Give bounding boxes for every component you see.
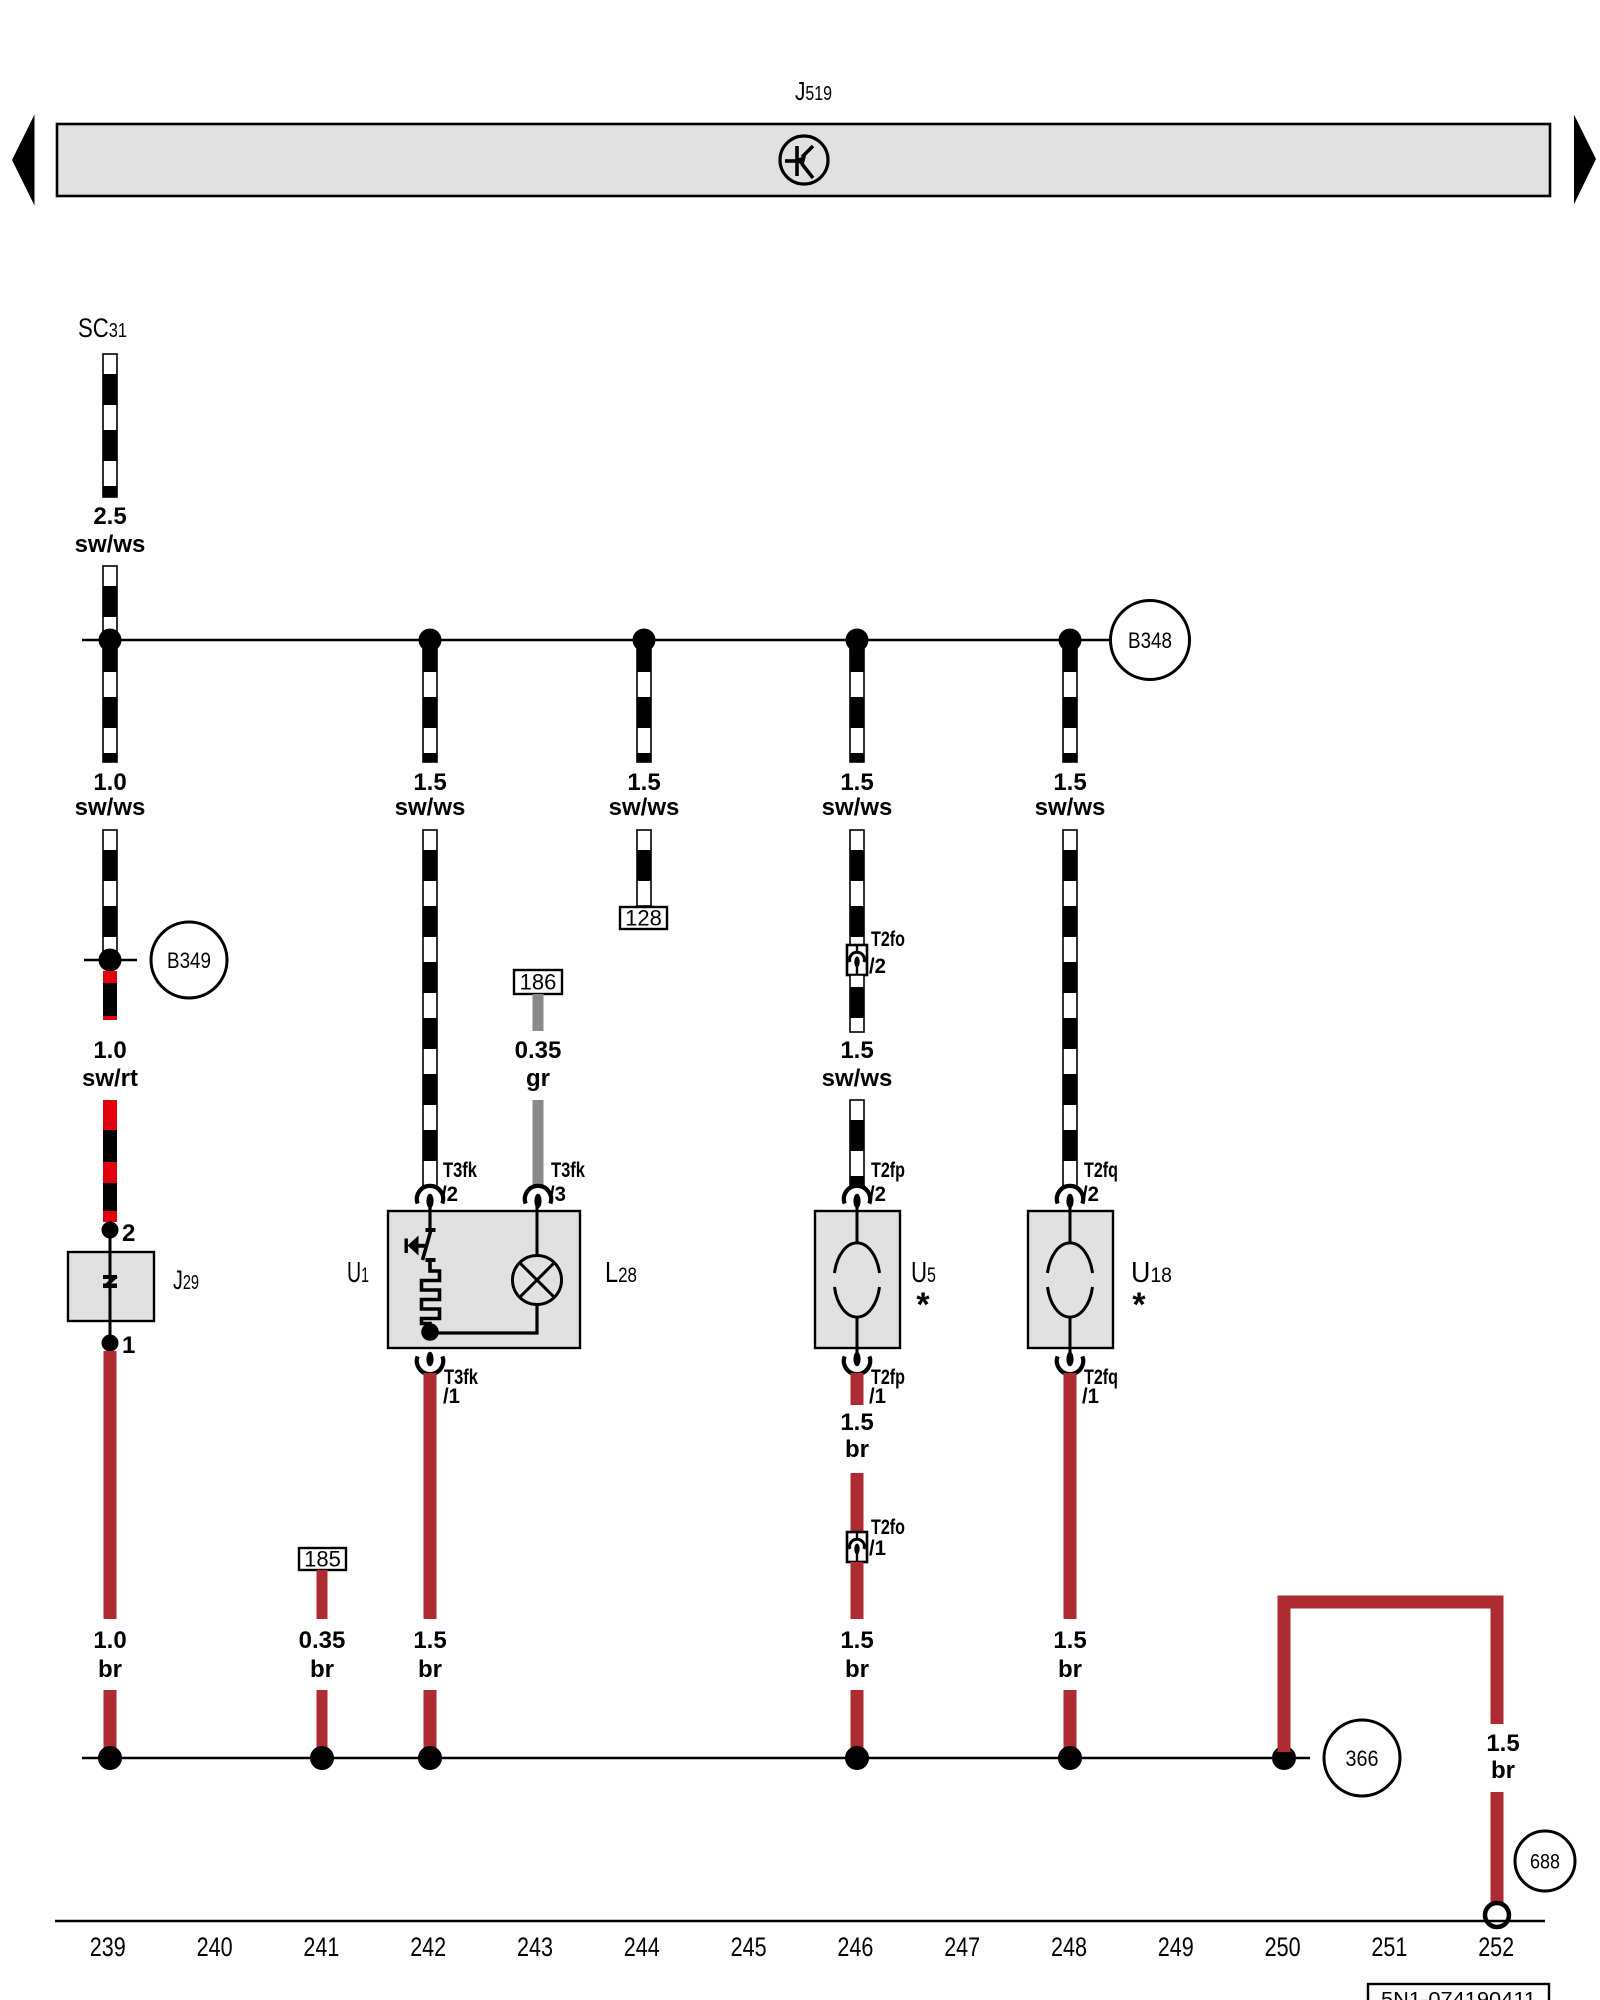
svg-text:br: br xyxy=(845,1656,869,1683)
junction dot node B349 xyxy=(99,949,122,972)
svg-text:sw/ws: sw/ws xyxy=(822,794,893,821)
wire sw/ws below T2fo/2 xyxy=(850,975,864,1032)
wire br 1.0 to ground bus 366 xyxy=(104,1690,117,1757)
label asterisk U5 xyxy=(916,1286,930,1324)
wire sw/rt to J29 pin 2 xyxy=(103,1100,117,1222)
svg-text:/1: /1 xyxy=(1082,1384,1099,1408)
svg-text:U1: U1 xyxy=(347,1257,369,1289)
svg-text:sw/ws: sw/ws xyxy=(75,794,146,821)
svg-text:2.5: 2.5 xyxy=(93,503,126,530)
svg-text:1.5: 1.5 xyxy=(627,769,660,796)
svg-text:T3fk: T3fk xyxy=(443,1158,477,1182)
U1 internal: wire from junction to lamp xyxy=(430,1305,537,1333)
svg-text:sw/ws: sw/ws xyxy=(609,794,680,821)
U1 internal junction dot xyxy=(421,1323,439,1341)
label U18 xyxy=(1131,1257,1172,1289)
diode symbol inside J29 xyxy=(103,1275,117,1288)
svg-text:sw/ws: sw/ws xyxy=(395,794,466,821)
svg-text:1.0: 1.0 xyxy=(93,1627,126,1654)
wire br 1.5 bend from bus to column 252 xyxy=(1284,1602,1497,1752)
svg-text:245: 245 xyxy=(731,1932,767,1962)
wire bus of node B348 (horizontal) xyxy=(82,639,1110,642)
svg-text:T2fq: T2fq xyxy=(1084,1158,1118,1182)
wire sw/ws 2.5 from SC31 (upper segment) xyxy=(103,354,117,497)
value label 1.0 br column 239 xyxy=(93,1627,126,1683)
svg-text:1.5: 1.5 xyxy=(840,1627,873,1654)
svg-text:br: br xyxy=(1491,1757,1515,1784)
node B349 designator circle xyxy=(151,922,227,998)
pin label T2fp/1 xyxy=(869,1365,905,1408)
wire sw/ws stub below bus column 242 xyxy=(423,641,437,762)
U5 internal socket symbol xyxy=(835,1206,880,1353)
svg-text:5N1-074190411: 5N1-074190411 xyxy=(1381,1989,1536,2000)
svg-text:/1: /1 xyxy=(443,1384,460,1408)
terminal symbol K in circle (inside J519 bar) xyxy=(780,136,828,184)
svg-text:244: 244 xyxy=(624,1932,660,1962)
svg-text:249: 249 xyxy=(1158,1932,1194,1962)
junction dot on ground bus at column 248 xyxy=(1058,1746,1082,1770)
svg-text:*: * xyxy=(916,1286,930,1324)
pin label T2fq/1 xyxy=(1082,1365,1118,1408)
wire sw/ws stub below bus column 244 xyxy=(637,641,651,762)
svg-text:242: 242 xyxy=(410,1932,446,1962)
value label 1.5 br lower column 246 xyxy=(840,1627,873,1683)
connector T3fk/2 xyxy=(417,1186,443,1208)
value label 1.5 sw/ws column 244 xyxy=(609,769,680,821)
label J29 xyxy=(173,1265,199,1295)
junction dot on B348 bus at column 246 xyxy=(846,629,869,652)
wire sw/ws stub below bus column 239 xyxy=(103,641,117,762)
node B348 designator circle xyxy=(1111,601,1190,680)
wire br 0.35 below box 185 xyxy=(317,1570,328,1619)
svg-text:186: 186 xyxy=(520,970,557,995)
connection box 186 xyxy=(514,970,562,995)
value label 1.5 sw/ws column 248 xyxy=(1035,769,1106,821)
svg-text:1.5: 1.5 xyxy=(1486,1730,1519,1757)
label J519 xyxy=(795,76,832,106)
svg-text:/3: /3 xyxy=(549,1182,566,1206)
junction dot on ground bus at column 241 xyxy=(310,1746,334,1770)
svg-text:1: 1 xyxy=(122,1332,135,1359)
svg-text:br: br xyxy=(1058,1656,1082,1683)
svg-text:239: 239 xyxy=(90,1932,126,1962)
value label 1.0 sw/ws column 239 xyxy=(75,769,146,821)
svg-text:J29: J29 xyxy=(173,1265,199,1295)
svg-text:688: 688 xyxy=(1530,1851,1560,1874)
U1 internal: plug arrow (lighter element) xyxy=(405,1236,427,1256)
label asterisk U18 xyxy=(1132,1286,1146,1324)
pin label T3fk/2 xyxy=(441,1158,477,1206)
svg-text:U5: U5 xyxy=(911,1257,936,1289)
wire sw/ws from bus to box 128 xyxy=(637,830,651,906)
value label 1.0 sw/rt xyxy=(82,1037,138,1092)
connector T3fk/1 xyxy=(417,1352,443,1374)
svg-text:0.35: 0.35 xyxy=(299,1627,346,1654)
svg-text:251: 251 xyxy=(1371,1932,1407,1962)
svg-text:sw/ws: sw/ws xyxy=(75,531,146,558)
wire gr 0.35 below box 186 xyxy=(533,994,544,1031)
U18 internal socket symbol xyxy=(1048,1206,1093,1353)
ground bus wire (horizontal) xyxy=(82,1757,1310,1760)
svg-text:br: br xyxy=(310,1656,334,1683)
pin label T2fq/2 xyxy=(1082,1158,1118,1206)
svg-text:*: * xyxy=(1132,1286,1146,1324)
value label 1.5 sw/ws column 246 xyxy=(822,1037,893,1092)
svg-text:252: 252 xyxy=(1478,1932,1514,1962)
svg-text:0.35: 0.35 xyxy=(515,1037,562,1064)
wire sw/ws stub below bus column 246 xyxy=(850,641,864,762)
svg-text:T2fp: T2fp xyxy=(871,1158,905,1182)
pin dot 2 of J29 xyxy=(102,1222,119,1239)
wire through J29 (pin 2 to pin 1) xyxy=(109,1230,112,1343)
wire sw/ws to node B348 bus xyxy=(103,566,117,639)
value label 1.5 sw/ws column 242 xyxy=(395,769,466,821)
svg-text:/2: /2 xyxy=(1082,1182,1099,1206)
wire br 1.5 to ground bus 366 column 242 xyxy=(424,1690,437,1757)
svg-text:B348: B348 xyxy=(1128,628,1172,653)
svg-text:SC31: SC31 xyxy=(78,313,127,343)
label U5 xyxy=(911,1257,936,1289)
svg-text:366: 366 xyxy=(1346,1746,1379,1771)
node B349 crossbar xyxy=(84,959,137,962)
wire br to ground bus column 246 xyxy=(851,1690,864,1757)
pin number 1 xyxy=(122,1332,135,1359)
value label 0.35 br column 241 xyxy=(299,1627,346,1683)
svg-text:1.5: 1.5 xyxy=(840,1037,873,1064)
connection box 128 xyxy=(620,906,667,931)
svg-text:248: 248 xyxy=(1051,1932,1087,1962)
pin label T2fp/2 xyxy=(869,1158,905,1206)
junction dot on ground bus at column 242 xyxy=(418,1746,442,1770)
inline connector T2fo/1 box xyxy=(847,1532,867,1562)
value label 1.5 br upper column 246 xyxy=(840,1409,873,1463)
relay J29 box xyxy=(68,1252,154,1321)
U1 internal: slanted contact line xyxy=(423,1228,432,1260)
bus bar J519 (onboard supply control unit) xyxy=(57,124,1550,196)
junction dot on B348 bus at column 242 xyxy=(419,629,442,652)
svg-text:U18: U18 xyxy=(1131,1257,1172,1289)
pin dot 1 of J29 xyxy=(102,1335,119,1352)
pin label T3fk/1 xyxy=(443,1365,478,1408)
svg-text:/2: /2 xyxy=(869,1182,886,1206)
svg-text:1.5: 1.5 xyxy=(1053,1627,1086,1654)
label U1 xyxy=(347,1257,369,1289)
svg-text:2: 2 xyxy=(122,1220,135,1247)
component box U1 / L28 (cigarette lighter with illumination) xyxy=(388,1211,580,1348)
svg-text:1.5: 1.5 xyxy=(413,1627,446,1654)
wire sw/rt short segment below B349 xyxy=(103,971,117,1020)
value label 1.5 br column 242 xyxy=(413,1627,446,1683)
svg-text:1.5: 1.5 xyxy=(840,769,873,796)
lamp symbol L28 xyxy=(513,1206,562,1305)
svg-text:246: 246 xyxy=(837,1932,873,1962)
wire sw/ws from bus to U1 pin T3fk/2 xyxy=(423,830,437,1187)
svg-text:sw/rt: sw/rt xyxy=(82,1065,138,1092)
connector T3fk/3 xyxy=(525,1186,551,1208)
wire gr 0.35 to L28 pin T3fk/3 xyxy=(533,1100,544,1187)
U1 internal: lead from pin 2 with contact tick xyxy=(426,1206,436,1230)
component box U18 (12V socket) xyxy=(1028,1211,1113,1348)
svg-text:sw/ws: sw/ws xyxy=(1035,794,1106,821)
value label 0.35 gr xyxy=(515,1037,562,1092)
svg-text:243: 243 xyxy=(517,1932,553,1962)
wire sw/ws stub below bus column 248 xyxy=(1063,641,1077,762)
wire sw/ws to U5 pin T2fp/2 xyxy=(850,1100,864,1187)
wire br to connector T2fo/1 xyxy=(851,1473,864,1532)
connector T2fq/2 xyxy=(1057,1186,1083,1208)
svg-text:1.5: 1.5 xyxy=(840,1409,873,1436)
svg-text:B349: B349 xyxy=(167,948,211,973)
value label 1.5 sw/ws column 246 xyxy=(822,769,893,821)
grid coordinate numbers 239-252 xyxy=(90,1932,1514,1962)
svg-text:br: br xyxy=(418,1656,442,1683)
svg-text:1.5: 1.5 xyxy=(1053,769,1086,796)
wire sw/ws from bus to connector T2fo/2 xyxy=(850,830,864,945)
ground 688 designator circle xyxy=(1515,1831,1575,1891)
value label 2.5 sw/ws xyxy=(75,503,146,558)
ground connection 366 designator circle xyxy=(1324,1720,1400,1796)
wire sw/ws from bus to U18 pin T2fq/2 xyxy=(1063,830,1077,1187)
part number box 5N1-074190411 xyxy=(1368,1984,1549,2000)
connector T2fp/2 xyxy=(844,1186,870,1208)
pin label T2fo/1 xyxy=(869,1515,905,1560)
svg-text:J519: J519 xyxy=(795,76,832,106)
svg-text:247: 247 xyxy=(944,1932,980,1962)
svg-text:br: br xyxy=(845,1436,869,1463)
junction dot on ground bus at column 246 xyxy=(845,1746,869,1770)
right continuation arrow xyxy=(1574,115,1596,205)
svg-text:241: 241 xyxy=(303,1932,339,1962)
value label 1.5 br column 248 xyxy=(1053,1627,1086,1683)
svg-text:/2: /2 xyxy=(869,954,886,978)
svg-text:L28: L28 xyxy=(605,1257,637,1289)
pin label T2fo/2 xyxy=(869,927,905,978)
fuse SC31 label xyxy=(78,313,127,343)
svg-text:250: 250 xyxy=(1265,1932,1301,1962)
svg-text:240: 240 xyxy=(197,1932,233,1962)
connector T2fp/1 xyxy=(844,1352,870,1374)
U1 internal: heating element resistor xyxy=(422,1260,440,1331)
bottom frame line xyxy=(55,1920,1545,1923)
wire br 0.35 to ground bus 366 xyxy=(317,1690,328,1757)
wire br 1.5 below U18 xyxy=(1064,1373,1077,1619)
wire br below T2fo/1 xyxy=(851,1562,864,1619)
wire br 1.5 below U5 xyxy=(851,1373,864,1405)
wire br 1.5 to ground point 688 xyxy=(1491,1792,1504,1903)
junction dot on B348 bus at column 239 xyxy=(99,629,122,652)
svg-text:T2fo: T2fo xyxy=(871,927,905,951)
pin number 2 xyxy=(122,1220,135,1247)
svg-text:185: 185 xyxy=(304,1547,341,1572)
wire sw/ws down to node B349 xyxy=(103,830,117,951)
wire br to ground bus column 248 xyxy=(1064,1690,1077,1757)
svg-text:1.5: 1.5 xyxy=(413,769,446,796)
svg-text:br: br xyxy=(98,1656,122,1683)
svg-text:1.0: 1.0 xyxy=(93,769,126,796)
label L28 xyxy=(605,1257,637,1289)
connector T2fq/1 xyxy=(1057,1352,1083,1374)
ground point open circle terminal 688 xyxy=(1485,1903,1509,1927)
inline connector T2fo/2 box xyxy=(847,945,867,975)
pin label T3fk/3 xyxy=(549,1158,585,1206)
junction dot on B348 bus at column 248 xyxy=(1059,629,1082,652)
svg-text:/1: /1 xyxy=(869,1536,886,1560)
svg-text:/2: /2 xyxy=(441,1182,458,1206)
svg-text:T3fk: T3fk xyxy=(551,1158,585,1182)
connection box 185 xyxy=(299,1547,346,1572)
svg-text:1.0: 1.0 xyxy=(93,1037,126,1064)
left continuation arrow xyxy=(12,115,35,206)
wire br 1.0 from J29 pin 1 xyxy=(104,1351,117,1619)
component box U5 (12V socket) xyxy=(815,1211,900,1348)
value label 1.5 br column 252 xyxy=(1486,1730,1519,1784)
junction dot on B348 bus at column 244 xyxy=(633,629,656,652)
wire br 1.5 from U1 pin T3fk/1 xyxy=(424,1373,437,1619)
junction dot on ground bus at column 239 xyxy=(98,1746,122,1770)
junction dot on ground bus at column 250 xyxy=(1272,1746,1296,1770)
svg-text:/1: /1 xyxy=(869,1384,886,1408)
svg-text:sw/ws: sw/ws xyxy=(822,1065,893,1092)
svg-text:128: 128 xyxy=(625,906,662,931)
svg-text:gr: gr xyxy=(526,1065,550,1092)
